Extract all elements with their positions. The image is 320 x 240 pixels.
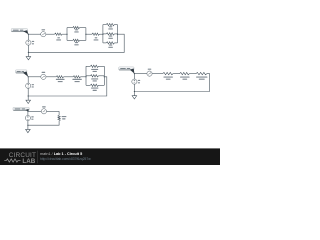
wire node to AM3	[28, 110, 41, 112]
wire block1 top-right stub	[80, 27, 86, 29]
svg-text:http://circuitlab.com/c837f6zq: http://circuitlab.com/c837f6zq257w	[40, 157, 91, 161]
label R2 value	[75, 29, 78, 30]
voltage source V3	[25, 115, 30, 120]
label flag circuit 3	[13, 107, 29, 111]
resistor R4	[92, 33, 99, 41]
voltage source V2	[26, 83, 31, 88]
node B junction	[28, 76, 29, 77]
junction block2 left	[102, 34, 103, 35]
label R8 value	[56, 79, 65, 80]
wire block3 top-left stub	[86, 65, 90, 67]
bottom credit bar	[0, 148, 220, 165]
node D junction	[134, 73, 135, 74]
ground circuit 3	[26, 125, 31, 133]
ammeter AM1	[41, 32, 46, 37]
label R5 value	[109, 26, 112, 27]
junction circuit2 ground node	[28, 95, 29, 96]
wire circuit2 return	[28, 77, 107, 96]
wire R1 to parallel block 1	[62, 33, 67, 35]
resistor R12	[90, 84, 98, 91]
junction block1 left	[66, 34, 67, 35]
resistor R13	[58, 115, 66, 120]
wire circuit1 return	[28, 34, 124, 52]
wire block3 bottom-right stub	[99, 84, 105, 86]
wire block1 to R4	[86, 33, 92, 35]
voltage source V4	[132, 79, 137, 84]
wire block3 top-right stub	[99, 65, 105, 67]
ammeter AM2	[41, 74, 46, 79]
wire block2 left vertical	[102, 25, 104, 43]
label R6 value	[109, 36, 112, 37]
junction circuit3 ground node	[27, 125, 28, 126]
label V4 value	[138, 80, 140, 83]
svg-text:LAB: LAB	[22, 158, 35, 165]
node C junction	[27, 111, 28, 112]
wire V2 bottom to return	[27, 89, 29, 97]
label R3 value	[75, 42, 78, 43]
node A junction	[28, 34, 29, 35]
label V2 value	[32, 84, 34, 87]
wire circuit4 return	[134, 74, 209, 92]
ground circuit 4	[132, 92, 137, 100]
wire AM3 to right corner	[47, 110, 60, 112]
resistor R3	[73, 39, 80, 45]
wire V3 bottom to return	[27, 121, 29, 126]
label R14 value	[164, 77, 173, 78]
label AM3	[42, 106, 46, 107]
wire V1 bottom to return	[27, 45, 29, 52]
wire node to AM1	[28, 33, 40, 35]
junction circuit4 ground node	[134, 91, 135, 92]
wire node to V1 top	[27, 34, 29, 40]
label V1 value	[32, 41, 34, 44]
ammeter AM4	[147, 71, 152, 76]
label V3 value	[31, 116, 33, 119]
wire block2 right vertical	[117, 25, 119, 43]
label R9 value	[72, 79, 81, 80]
label flag circuit 4	[119, 67, 135, 74]
wire block1 right vertical	[85, 28, 87, 41]
label R1 value	[57, 37, 60, 38]
resistor R8	[56, 76, 65, 83]
logo separator line	[37, 151, 39, 164]
label flag Original circuit	[11, 29, 28, 35]
resistor R9	[72, 76, 81, 83]
label R13 value	[62, 116, 67, 117]
CircuitLab logo	[4, 152, 36, 165]
wire corner down to R13	[58, 111, 60, 115]
resistor R6	[106, 33, 114, 39]
wire block1 left vertical	[66, 28, 68, 41]
wire R4 to parallel block 2	[99, 33, 103, 35]
wire block1 bottom-right stub	[80, 39, 86, 41]
resistor R10	[90, 65, 98, 72]
label R12 value	[91, 88, 98, 89]
resistor R7	[106, 42, 114, 48]
label R10 value	[91, 69, 98, 70]
wire block2 bottom-right stub	[114, 42, 117, 44]
ammeter AM3	[41, 109, 46, 114]
wire node to V2 top	[27, 77, 29, 83]
wire block3 left vertical	[85, 66, 87, 85]
resistor R1	[55, 33, 63, 41]
junction block1 right	[85, 34, 86, 35]
wire block1 top-left stub	[67, 27, 73, 29]
label R4 value	[95, 37, 98, 38]
wire node to V4 top	[133, 74, 135, 79]
wire R14 to R15	[173, 73, 180, 75]
label R11 value	[91, 78, 98, 79]
label AM4	[148, 69, 152, 70]
wire block2 top-right stub	[114, 24, 117, 26]
wire block3 mid-left stub	[86, 75, 90, 77]
wire block1 bottom-left stub	[67, 39, 73, 41]
label R15 value	[180, 77, 190, 78]
resistor R11	[90, 75, 98, 82]
voltage source V1	[26, 40, 31, 45]
svg-text:matn1 / Lab 1 - Circuit 5: matn1 / Lab 1 - Circuit 5	[40, 152, 82, 156]
wire block3 mid-right stub	[99, 75, 105, 77]
ground circuit 2	[26, 96, 31, 104]
wire R9 to parallel block 3	[81, 76, 87, 78]
label flag circuit 2	[16, 70, 29, 77]
resistor R16	[196, 72, 207, 79]
wire block2 mid-right stub	[114, 33, 117, 35]
resistor R5	[106, 23, 114, 29]
resistor R15	[180, 72, 190, 79]
label AM2	[42, 72, 46, 73]
wire node to AM2	[28, 76, 41, 78]
wire block2 top-left stub	[103, 24, 106, 26]
wire AM1 to R1	[46, 33, 55, 35]
wire V4 bottom to return	[133, 84, 135, 91]
wire R15 to R16	[189, 73, 196, 75]
wire block2 mid-left stub	[103, 33, 106, 35]
junction block3 left	[85, 76, 86, 77]
label R7 value	[109, 45, 112, 46]
wire circuit3 return	[28, 121, 59, 126]
wire block3 bottom-left stub	[86, 84, 90, 86]
wire AM2 to R8	[46, 76, 56, 78]
wire AM4 to R14	[152, 73, 163, 75]
junction block3 right	[104, 76, 105, 77]
wire block2 bottom-left stub	[103, 42, 106, 44]
wire node to AM4	[134, 73, 146, 75]
ground circuit 1	[26, 52, 31, 60]
wire block3 right vertical	[103, 66, 105, 85]
label AM1	[42, 29, 46, 30]
resistor R2	[73, 26, 80, 32]
junction circuit1 ground node	[28, 52, 29, 53]
wire node to V3 top	[27, 111, 29, 115]
junction block2 right	[117, 34, 118, 35]
wire R8 to R9	[64, 76, 74, 78]
resistor R14	[163, 72, 173, 79]
label R16 value	[196, 77, 207, 78]
